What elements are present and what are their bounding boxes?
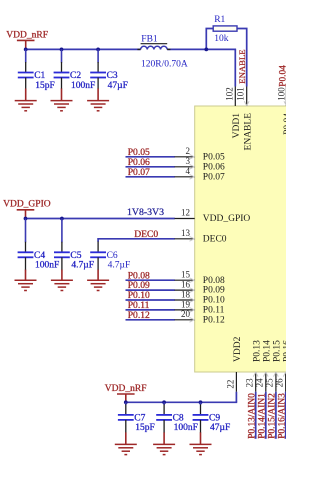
pin 13 arrow [190,236,195,241]
svg-text:P0.16/AIN3: P0.16/AIN3 [277,393,286,439]
wire P0.14/AIN1 [265,392,267,439]
capacitor C6 [90,251,130,271]
pin 23 (P0.13) [245,340,263,392]
svg-text:VDD1: VDD1 [232,113,242,139]
pin 101 input arrow [244,101,249,105]
svg-text:15pF: 15pF [135,423,155,433]
power port VDD_nRF [105,384,147,402]
wire P0.05 [126,156,175,158]
svg-text:12: 12 [181,208,190,218]
junction VDD_GPIO power stem / C4 [24,217,28,221]
pin 12 (VDD_GPIO) [175,208,251,224]
pin 26 arrow [283,372,288,376]
svg-text:P0.16: P0.16 [282,340,286,362]
svg-text:1V8-3V3: 1V8-3V3 [127,207,164,218]
svg-text:100nF: 100nF [174,423,198,433]
net label P0.09 [128,280,150,291]
net label P0.13/AIN0 [247,393,257,439]
net label P0.14/AIN1 [257,393,267,439]
power port VDD_GPIO [3,200,51,219]
svg-text:2: 2 [186,146,191,156]
svg-text:VDD_GPIO: VDD_GPIO [3,200,51,210]
net label P0.08 [128,270,150,281]
svg-text:P0.15/AIN2: P0.15/AIN2 [268,393,278,439]
net label P0.05 [128,147,150,158]
net label P0.15/AIN2 [268,393,278,439]
svg-text:P0.12: P0.12 [203,315,225,325]
junction VDD_nRF bottom / C7 [124,400,128,404]
svg-text:FB1: FB1 [141,35,158,45]
svg-text:ENABLE: ENABLE [237,49,247,83]
svg-text:10k: 10k [214,34,229,44]
pin 4 arrow [190,174,195,179]
svg-text:100: 100 [276,87,286,101]
power port VDD_nRF [6,30,48,49]
capacitor C3 [90,49,128,90]
svg-text:101: 101 [236,87,246,101]
ground [15,270,37,291]
svg-text:C1: C1 [34,71,45,81]
wire P0.07 [126,176,175,178]
svg-text:18: 18 [181,289,191,299]
svg-text:C7: C7 [134,413,145,423]
svg-text:P0.06: P0.06 [203,162,225,172]
pin 16 (P0.09) [175,280,225,296]
resistor R1 [213,15,237,44]
net label ENABLE [237,49,247,83]
pin 18 (P0.10) [175,289,225,305]
capacitor C2 [54,49,96,90]
capacitor C1 [18,49,55,90]
junction C3 [96,48,100,52]
wire rail riser to pin 22 [235,392,237,403]
net label P0.06 [128,157,150,168]
capacitor C5 [54,219,94,271]
svg-text:100nF: 100nF [35,261,59,271]
pin 101 (ENABLE) [236,87,254,151]
pin 13 (DEC0) [175,228,227,244]
junction R1 left lead [204,48,208,52]
pin 22 (VDD2) [225,336,243,391]
svg-text:P0.08: P0.08 [203,276,225,286]
wire P0.08 [126,279,175,281]
svg-text:20: 20 [181,309,191,319]
svg-text:R1: R1 [214,15,225,25]
svg-text:P0.07: P0.07 [203,172,225,182]
pin 15 arrow [190,278,195,283]
svg-text:VDD2: VDD2 [233,336,243,362]
wire P0.10 [126,299,175,301]
pin 19 (P0.11) [175,299,225,315]
svg-text:C9: C9 [209,413,220,423]
ground [15,89,37,111]
ground [87,270,109,291]
junction C8 [162,400,166,404]
IC U1 body [195,106,295,372]
svg-text:23: 23 [245,378,255,388]
ground [153,432,175,454]
svg-text:26: 26 [275,378,285,388]
ground [190,432,212,454]
pin 24 (P0.14) [255,340,273,392]
net label 1V8-3V3 [127,207,164,218]
capacitor C7 [118,402,155,433]
svg-text:P0.04: P0.04 [283,113,286,135]
net label P0.10 [128,290,150,301]
pin 18 arrow [190,298,195,303]
pin 20 (P0.12) [175,309,225,325]
capacitor C4 [18,219,60,271]
pin 100 (P0.04) [276,87,293,135]
junction C9 [199,400,203,404]
wire VDD_GPIO trunk [26,218,175,220]
svg-text:4.7µF: 4.7µF [71,261,94,271]
wire VDD_nRF top trunk (right of FB1) [167,48,236,50]
wire P0.09 [126,289,175,291]
svg-text:24: 24 [255,378,265,388]
capacitor C6 riser [97,242,99,253]
pin 19 arrow [190,308,195,313]
svg-text:P0.13/AIN0: P0.13/AIN0 [247,393,257,439]
pin 26 (P0.16) [275,340,293,392]
wire VDD_nRF bottom rail [126,401,237,403]
pin 100 input arrow [284,101,289,105]
net label DEC0 [134,229,158,240]
svg-text:C3: C3 [107,71,118,81]
junction VDD_nRF / power stem / C1 [24,48,28,52]
wire P0.15/AIN2 [275,392,277,439]
wire R1 right lead to pin 101 [237,29,247,87]
svg-text:C4: C4 [34,251,45,261]
capacitor C8 [156,402,198,433]
capacitor C9 [193,402,231,433]
svg-text:DEC0: DEC0 [203,234,227,244]
svg-text:P0.13: P0.13 [252,340,262,362]
net label P0.16/AIN3 [277,393,287,439]
net label P0.07 [128,167,150,178]
wire P0.11 [126,309,175,311]
pin 16 arrow [190,288,195,293]
svg-text:P0.14/AIN1: P0.14/AIN1 [257,393,267,439]
svg-text:120R/0.70A: 120R/0.70A [141,59,188,69]
pin 2 arrow [190,154,195,159]
net label P0.04 [279,65,289,87]
pin 3 (P0.06) [175,156,225,172]
wire trunk drop to pin 102 [234,49,236,86]
svg-text:13: 13 [181,228,191,238]
svg-text:VDD_nRF: VDD_nRF [6,30,48,40]
wire VDD_nRF top trunk (left of FB1) [26,48,141,50]
svg-text:VDD_GPIO: VDD_GPIO [203,214,251,224]
wire R1 left lead [206,29,213,50]
svg-text:19: 19 [181,299,191,309]
svg-text:P0.10: P0.10 [203,296,225,306]
svg-text:P0.05: P0.05 [203,152,225,162]
ground [51,89,73,111]
wire DEC0 (C6 riser and horizontal) [98,239,175,242]
pin 2 (P0.05) [175,146,225,162]
svg-text:25: 25 [265,378,275,388]
wire P0.06 [126,166,175,168]
wire P0.12 [126,319,175,321]
net label P0.12 [128,310,150,321]
pin 25 (P0.15) [265,340,283,392]
svg-text:DEC0: DEC0 [134,229,158,240]
pin 15 (P0.08) [175,270,225,286]
pin 23 arrow [253,372,258,376]
ground [115,432,137,454]
svg-text:P0.14: P0.14 [262,340,272,362]
svg-text:47µF: 47µF [210,423,230,433]
pin 102 (VDD1) [224,87,242,139]
svg-text:100nF: 100nF [71,81,95,91]
svg-text:22: 22 [225,380,235,389]
svg-text:47µF: 47µF [108,81,128,91]
svg-text:16: 16 [181,280,191,290]
junction C2 [60,48,64,52]
pin 3 arrow [190,164,195,169]
svg-text:15: 15 [181,270,191,280]
svg-text:P0.11: P0.11 [203,306,225,316]
svg-text:VDD_nRF: VDD_nRF [105,384,147,394]
pin 25 arrow [274,372,279,376]
wire P0.13/AIN0 [255,392,257,439]
svg-text:ENABLE: ENABLE [243,113,253,151]
svg-text:P0.15: P0.15 [273,340,283,362]
svg-text:C5: C5 [70,251,81,261]
svg-text:P0.04: P0.04 [279,65,286,87]
svg-text:C2: C2 [70,71,81,81]
junction C5 [60,217,64,221]
pin 4 (P0.07) [175,166,225,182]
svg-text:C8: C8 [173,413,184,423]
ground [51,270,73,291]
net label P0.11 [128,300,150,311]
svg-text:P0.09: P0.09 [203,286,225,296]
pin 24 arrow [263,372,268,376]
svg-text:15pF: 15pF [35,81,55,91]
ferrite bead FB1 [137,35,187,70]
svg-text:102: 102 [224,87,234,101]
ground [87,89,109,111]
pin 20 arrow [190,317,195,322]
svg-text:C6: C6 [107,251,118,261]
svg-text:4.7µF: 4.7µF [108,261,131,271]
wire P0.16/AIN3 [285,392,287,439]
